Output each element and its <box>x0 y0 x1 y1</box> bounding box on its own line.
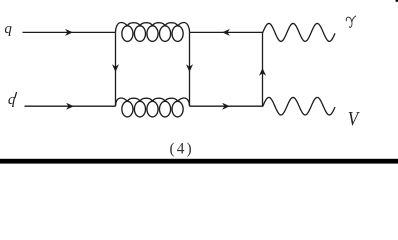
arrow on q' line <box>66 103 74 110</box>
boson line to V <box>263 97 335 115</box>
bottom rule <box>0 159 398 164</box>
arrow on top-right segment (points left) <box>222 29 230 36</box>
arrow up on right vertical <box>259 68 266 76</box>
quark line q' (incoming bottom-left) <box>25 105 116 107</box>
vertical fermion line right (upward) <box>262 32 264 106</box>
quark line q (incoming top-left) <box>23 31 116 33</box>
svg-text:q: q <box>4 21 12 37</box>
internal fermion line top-right (flow right-to-left) <box>190 31 263 33</box>
internal fermion line bottom-right (flow left-to-right) <box>190 105 263 107</box>
gluon propagator top <box>115 23 189 42</box>
svg-text:q: q <box>8 92 16 108</box>
arrow down on left vertical <box>112 64 119 72</box>
vertical fermion line middle (downward) <box>189 32 191 106</box>
svg-text:(4): (4) <box>170 141 194 158</box>
arrow down on middle vertical <box>186 64 193 72</box>
prime mark of q prime <box>15 93 17 98</box>
arrow on q line <box>65 29 73 36</box>
corner mark top-right <box>396 0 398 2</box>
gluon propagator bottom <box>115 98 189 117</box>
photon line to gamma <box>263 23 335 41</box>
vertical fermion line left (downward) <box>115 32 117 106</box>
label gamma (custom CM-style glyph) <box>346 16 355 27</box>
arrow on bottom-right segment (points right) <box>222 103 230 110</box>
